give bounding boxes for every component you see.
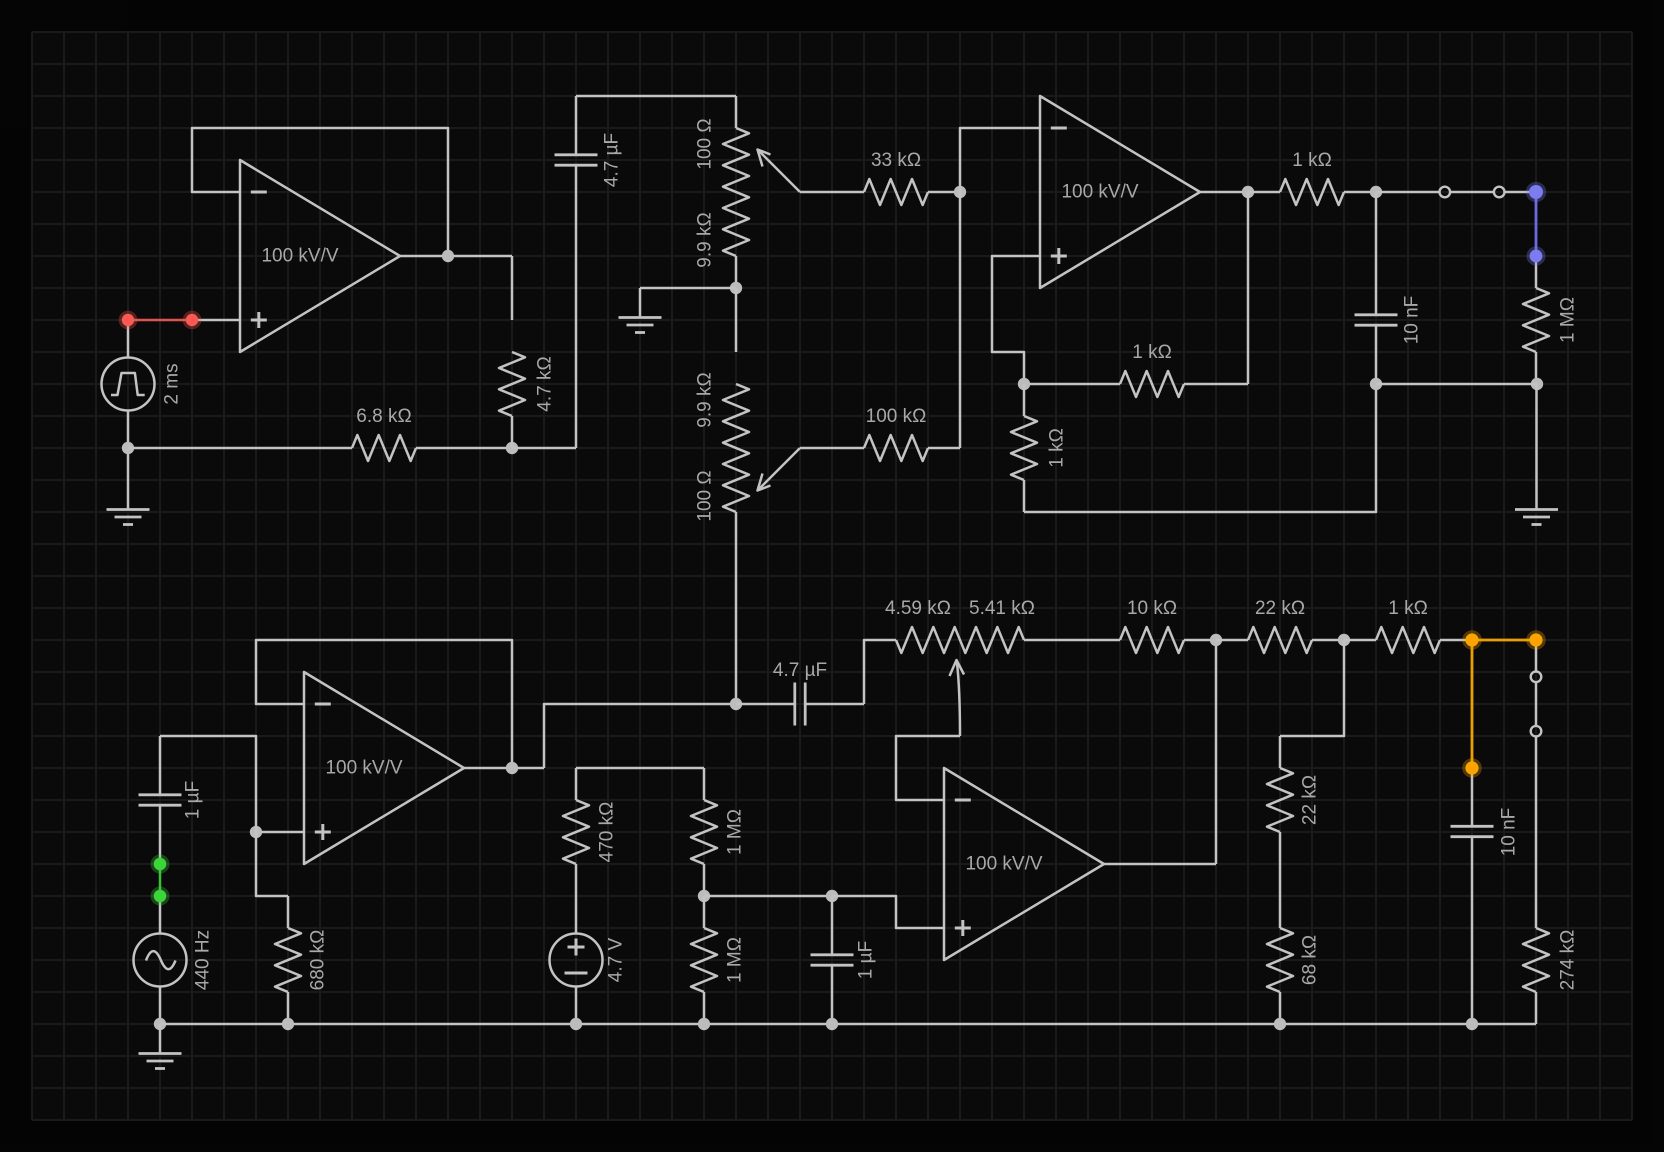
capacitor C6 10 nF [1451,768,1520,1024]
capacitor C5 4.7 uF [736,660,864,726]
svg-text:1 kΩ: 1 kΩ [1292,150,1332,171]
svg-text:100 kΩ: 100 kΩ [866,406,927,427]
junction node V3 bottom [570,1018,582,1030]
junction node U3 output [506,762,518,774]
wire ground rail [160,1023,1536,1026]
wire P1 to mid junction [735,256,738,288]
junction node C4 top [826,890,838,902]
wiper arrow P2 [758,448,801,491]
capacitor C1 4.7 uF [512,96,623,448]
junction node R14/R15 [1338,634,1350,646]
resistor R13 10 kΩ [1088,598,1216,653]
op-amp U1 100 kV/V [240,160,400,352]
wire to GND2 [640,287,736,290]
wire U1 output [400,255,512,258]
svg-text:4.7 kΩ: 4.7 kΩ [535,356,556,411]
wire U2 output [1200,191,1248,194]
svg-text:10 nF: 10 nF [1499,808,1520,857]
resistor R12 1 MΩ [691,896,746,1024]
wire P2 bottom to lower stage [735,512,738,704]
wire U3 output [464,767,544,770]
node OUT2 orange wires [1462,630,1546,778]
junction node C6 bottom [1466,1018,1478,1030]
junction node R3 / U2 minus [954,186,966,198]
resistor R15 1 kΩ [1344,598,1472,653]
wire U2 minus input [960,128,1040,192]
junction node V2 bottom [154,1018,166,1030]
resistor R7 1 kΩ output [1248,150,1376,205]
svg-text:1 kΩ: 1 kΩ [1388,598,1428,619]
wire U4 plus input [832,896,944,928]
wire U4 output [1104,863,1216,866]
svg-text:4.7 V: 4.7 V [606,937,627,982]
junction node pot midpoint [730,282,742,294]
capacitor C3 1 uF [139,736,204,864]
junction node R13/U4 out [1210,634,1222,646]
svg-text:22 kΩ: 22 kΩ [1255,598,1305,619]
capacitor C4 1 uF [811,896,877,1024]
wire + input lead op-amp U1 [192,319,240,322]
wire to R1 [128,447,352,450]
junction node R1/R2/C1 [506,442,518,454]
wire R11 node to C4 [704,895,832,898]
wire mid junction to P2 [735,288,738,352]
wire C5 riser to P3 [864,640,896,704]
resistor R9 680 kΩ [275,896,329,1024]
wire wiper P3 to U4 minus [896,736,960,800]
svg-text:100 kV/V: 100 kV/V [261,246,338,267]
wire R4 to R3 node [959,192,962,448]
wire U4 output riser [1215,640,1218,864]
op-amp U2 100 kV/V [1040,96,1200,288]
wire wiper P2 to R4 [800,447,864,450]
svg-text:100 Ω: 100 Ω [695,118,716,169]
svg-text:1 µF: 1 µF [183,781,204,819]
svg-text:22 kΩ: 22 kΩ [1300,775,1321,825]
wiper arrow P1 [758,150,801,193]
svg-text:6.8 kΩ: 6.8 kΩ [356,406,411,427]
resistor R5 1 kΩ feedback [1024,342,1248,397]
svg-text:100 kV/V: 100 kV/V [1061,182,1138,203]
svg-text:1 MΩ: 1 MΩ [725,809,746,855]
wire plus node to C3 [160,736,256,832]
switch SW1 open [1376,187,1531,198]
wire U2 feedback riser [1247,192,1250,384]
ground GND4 [139,1024,182,1069]
resistor R17 68 kΩ [1267,864,1321,1024]
source V2 440 Hz sine [134,896,214,1024]
svg-text:100 kV/V: 100 kV/V [325,758,402,779]
potentiometer P2 lower 9.9 kΩ / 100 Ω [695,372,750,521]
svg-text:4.7 µF: 4.7 µF [602,133,623,187]
svg-text:5.41 kΩ: 5.41 kΩ [969,598,1035,619]
wire wiper P1 to R3 [800,191,864,194]
svg-text:470 kΩ: 470 kΩ [597,802,618,863]
svg-text:1 µF: 1 µF [856,941,877,979]
svg-text:1 kΩ: 1 kΩ [1132,342,1172,363]
node OUT1 blue wire [1526,182,1546,266]
junction node C2 bottom [1370,378,1382,390]
resistor R4 100 kΩ [864,406,960,461]
switch SW2 open [1531,640,1542,896]
junction node C4 bottom [826,1018,838,1030]
ground GND3 [1515,384,1558,525]
wire C2-R8 bottoms [1376,383,1537,386]
svg-text:10 kΩ: 10 kΩ [1127,598,1177,619]
node IN1 red highlighted wire [119,311,202,330]
junction node R12 bottom [698,1018,710,1030]
junction node R11/R12 [698,890,710,902]
ground GND1 [107,448,150,525]
wiper arrow P3 [950,660,965,736]
resistor R3 33 kΩ [864,150,960,205]
wire U2 plus input [992,256,1040,384]
svg-text:4.7 µF: 4.7 µF [773,660,827,681]
wire U3 output riser [544,704,736,768]
svg-text:1 MΩ: 1 MΩ [1558,297,1579,343]
pulse source V1 2 ms [102,320,183,448]
svg-text:4.59 kΩ: 4.59 kΩ [885,598,951,619]
wire U3 feedback [256,640,512,768]
junction node A [1018,378,1030,390]
wire feedback U1 [192,128,448,256]
junction node R9 bottom [282,1018,294,1030]
resistor R10 470 kΩ [563,768,618,896]
wire U3 plus lead [256,831,304,834]
svg-text:100 kV/V: 100 kV/V [965,854,1042,875]
svg-text:100 Ω: 100 Ω [695,470,716,521]
resistor R1 6.8 kΩ [352,406,512,461]
resistor R14 22 kΩ [1216,598,1344,653]
svg-text:440 Hz: 440 Hz [193,930,214,990]
junction node R8 bottom [1531,378,1543,390]
svg-text:1 kΩ: 1 kΩ [1047,428,1068,468]
svg-text:9.9 kΩ: 9.9 kΩ [695,372,716,427]
junction node at V1 bottom [122,442,134,454]
svg-text:10 nF: 10 nF [1402,296,1423,345]
wire R14 node to R16 [1280,640,1344,736]
resistor R8 1 MΩ [1523,256,1579,384]
junction node mid [730,698,742,710]
wire plus node to R9 [256,832,288,896]
junction node R7/C2 [1370,186,1382,198]
node IN2 green wire [151,855,170,906]
svg-text:2 ms: 2 ms [162,363,183,404]
resistor R11 1 MΩ [691,768,746,896]
op-amp U3 100 kV/V [304,672,464,864]
op-amp U4 100 kV/V [944,768,1104,960]
wire bottom return [1024,384,1376,512]
potentiometer P1 upper 100 Ω / 9.9 kΩ [695,118,750,267]
junction node U2 output [1242,186,1254,198]
resistor R16 22 kΩ [1267,736,1321,864]
resistor R2 4.7 kΩ [499,256,556,448]
ground GND2 [619,288,662,333]
svg-text:68 kΩ: 68 kΩ [1300,935,1321,985]
capacitor C2 10 nF [1355,192,1423,384]
junction node R17 bottom [1274,1018,1286,1030]
svg-text:9.9 kΩ: 9.9 kΩ [695,212,716,267]
wire C1 top to potentiometer P1 [576,96,736,128]
junction node U3 plus [250,826,262,838]
junction node U1 output [442,250,454,262]
wire P3 to R13 [1024,639,1088,642]
resistor R6 1 kΩ to rail [1011,384,1068,512]
svg-text:274 kΩ: 274 kΩ [1558,930,1579,991]
source V3 4.7 V [550,896,627,1024]
svg-text:33 kΩ: 33 kΩ [871,150,921,171]
wire divider rung [576,767,704,770]
svg-text:680 kΩ: 680 kΩ [308,930,329,991]
resistor R18 274 kΩ [1523,896,1579,1024]
svg-text:1 MΩ: 1 MΩ [725,937,746,983]
potentiometer P3 4.59 kΩ / 5.41 kΩ [885,598,1035,653]
